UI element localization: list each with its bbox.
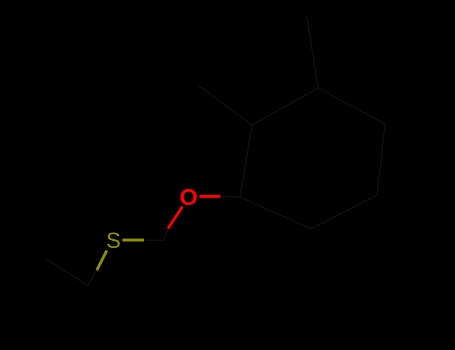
bond C1-S dark remainder xyxy=(146,239,164,241)
wire: faint skeleton bonds (nearly black) xyxy=(47,17,385,286)
bond S-E2 olive half xyxy=(97,251,107,271)
bond B-G substituent xyxy=(199,86,252,125)
svg-text:O: O xyxy=(179,184,197,210)
bond S-C1 olive half xyxy=(122,239,144,242)
bond O-A red half xyxy=(200,195,221,198)
bond C1-O dark remainder xyxy=(164,229,168,241)
ring bond E-F xyxy=(311,195,377,229)
ring bond B-C xyxy=(252,88,318,125)
ring bond F-A xyxy=(240,197,311,229)
bond E2-S dark remainder xyxy=(88,271,97,286)
ring bond A-B xyxy=(240,125,252,197)
ring bond D-E xyxy=(377,124,385,195)
bond C-H substituent xyxy=(307,17,318,88)
svg-text:S: S xyxy=(106,228,121,253)
bond O-C1 red half xyxy=(168,207,183,229)
bond A-O dark remainder xyxy=(222,195,240,198)
ring bond C-D xyxy=(318,88,385,124)
bond E2-E1 ethyl CH3 xyxy=(47,260,88,286)
